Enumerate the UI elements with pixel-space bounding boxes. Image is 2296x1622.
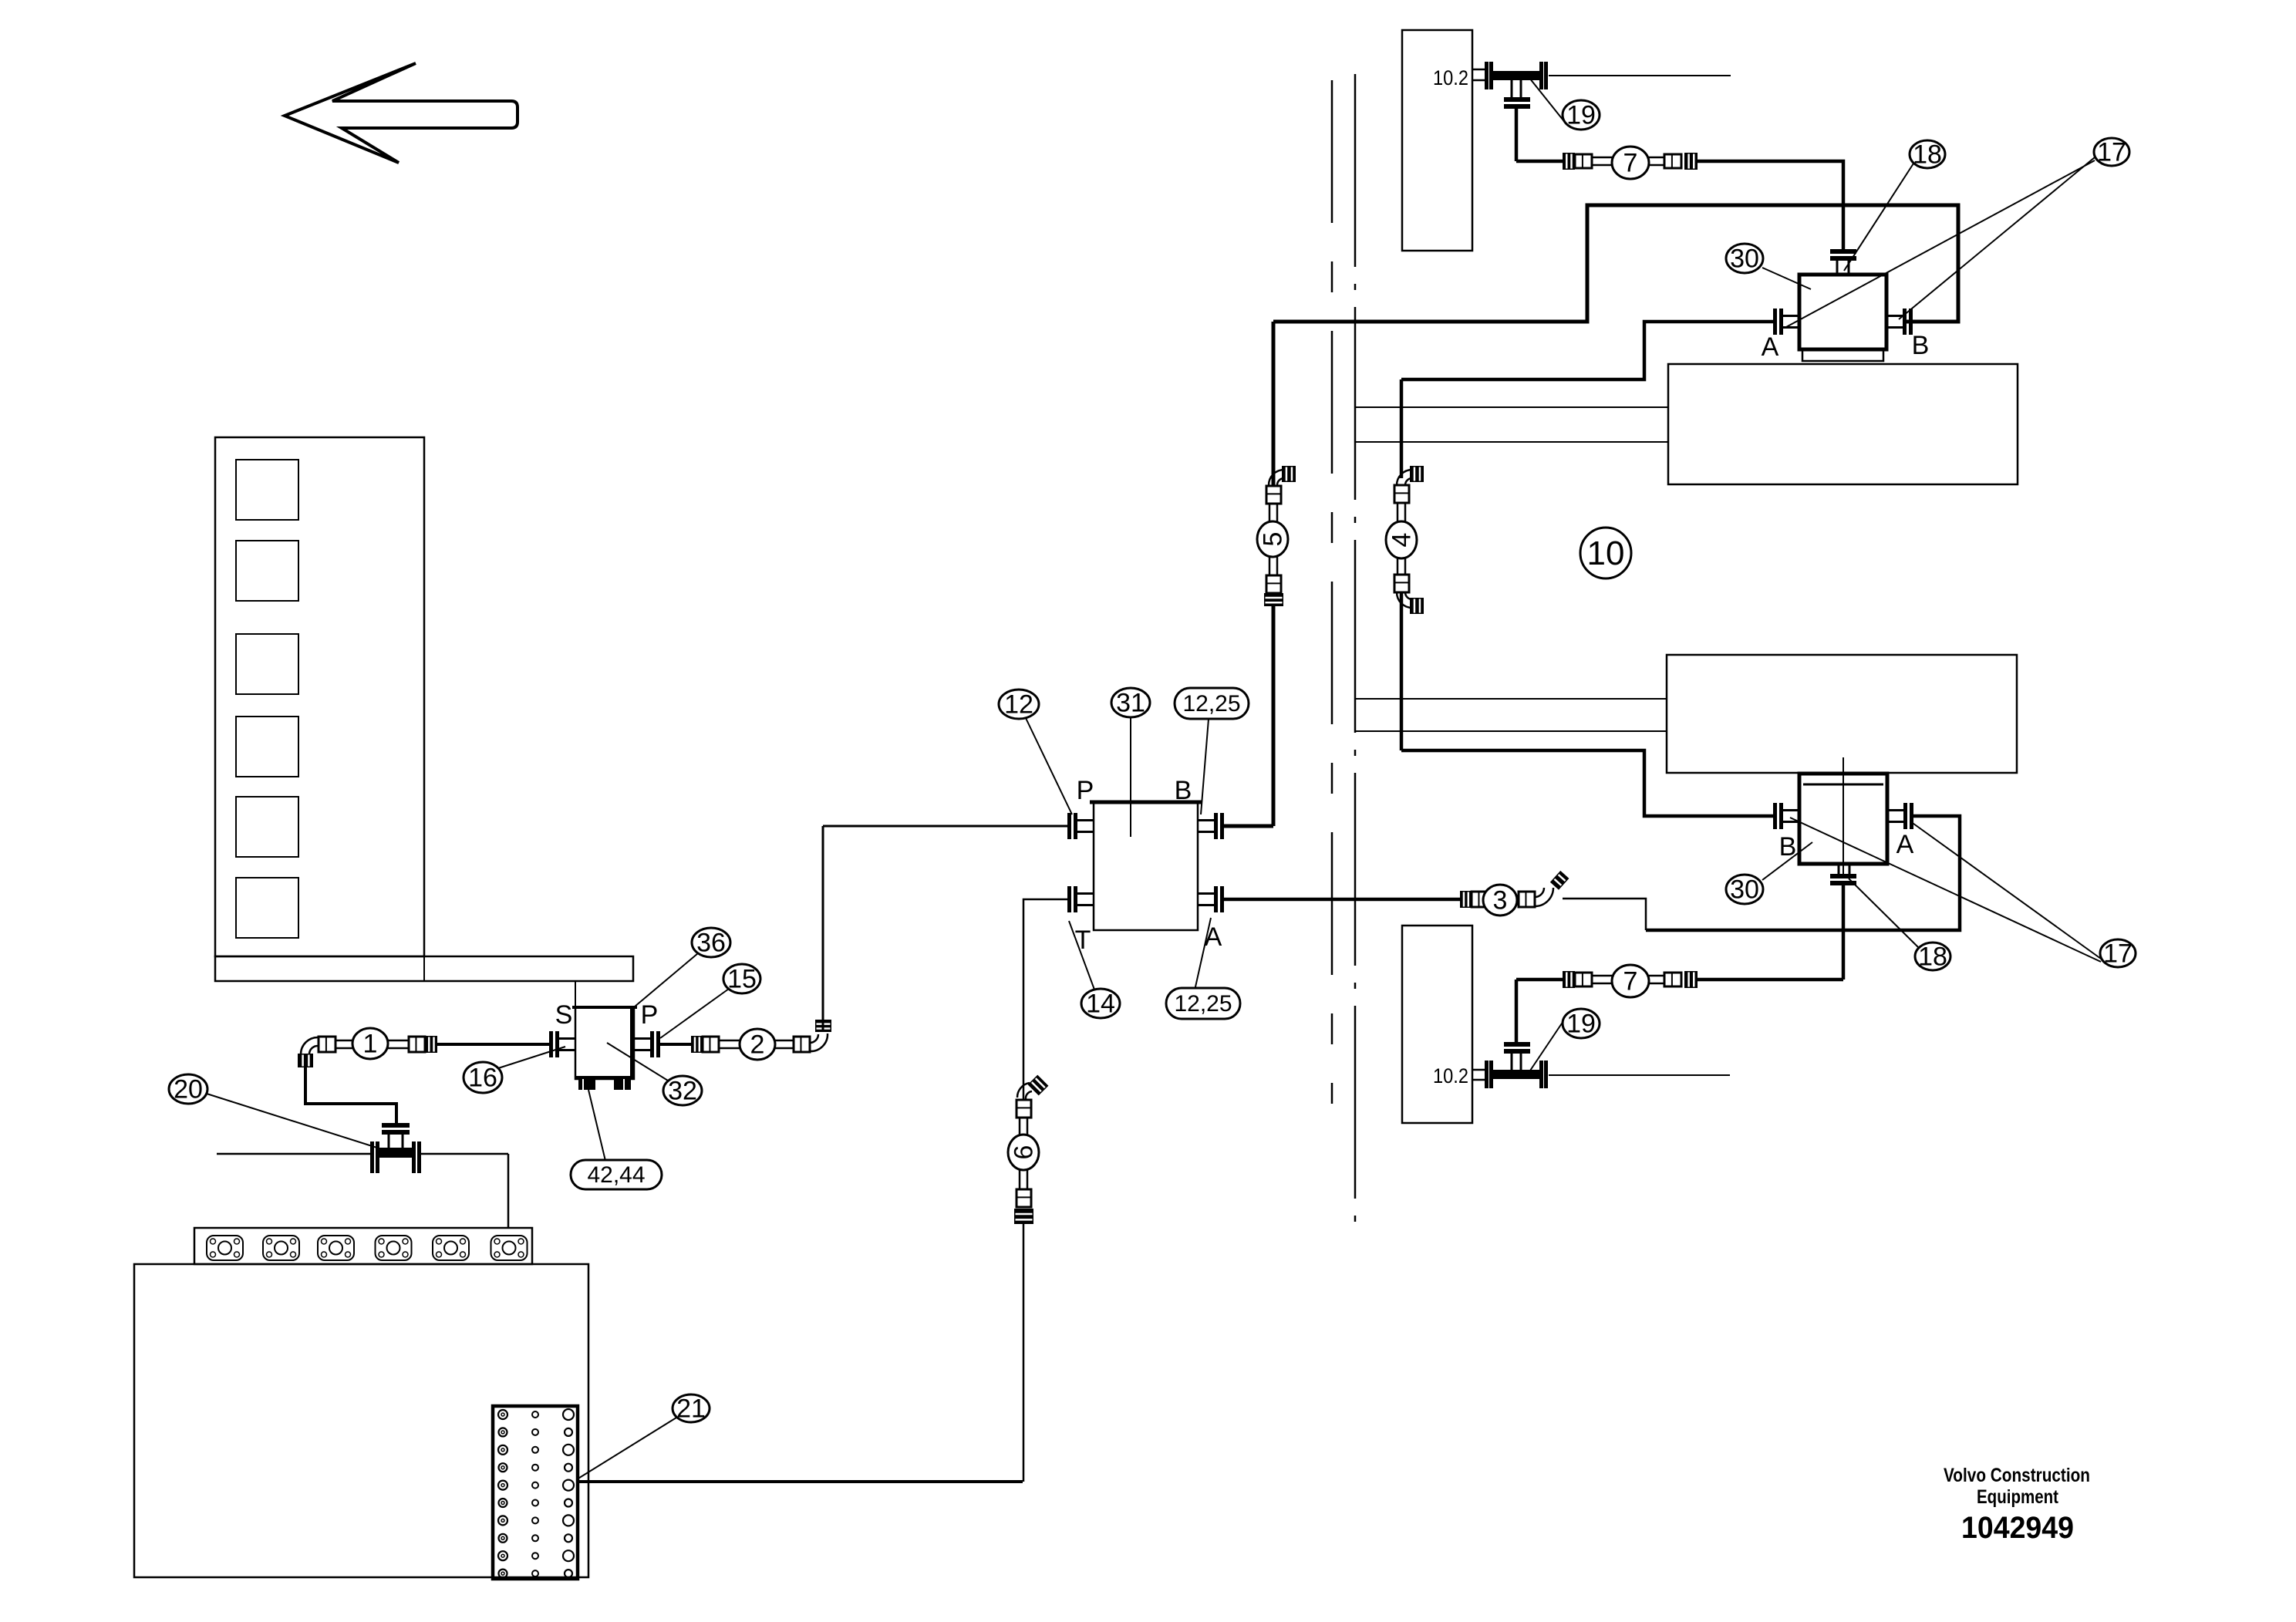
- hose H5 tube top: [1269, 504, 1277, 521]
- wire H3-to-loop: [1563, 899, 1646, 930]
- frame window 5: [236, 797, 298, 857]
- wire B-line: [1224, 824, 1273, 828]
- svg-text:21: 21: [676, 1394, 706, 1424]
- axle line top: [1549, 75, 1731, 76]
- svg-text:10.2: 10.2: [1433, 1064, 1468, 1088]
- tank flange plate 5: [433, 1236, 469, 1260]
- leader 21: [577, 1418, 676, 1479]
- callout 10: [1580, 528, 1631, 578]
- svg-text:5: 5: [1259, 532, 1288, 547]
- svg-text:18: 18: [1913, 140, 1942, 170]
- svg-text:12,25: 12,25: [1182, 691, 1240, 717]
- port label B top: [1912, 331, 1930, 360]
- svg-text:1042949: 1042949: [1961, 1511, 2074, 1545]
- port B fitting(30b): [1773, 803, 1799, 829]
- svg-text:16: 16: [468, 1064, 497, 1093]
- tee T20 neck: [389, 1135, 403, 1148]
- valve U30b flange stubs: [1839, 864, 1849, 874]
- callout 14: [1081, 989, 1120, 1019]
- svg-text:30: 30: [1730, 244, 1759, 274]
- wire block-to-H6: [578, 1480, 1023, 1483]
- valve U30t base plate: [1802, 349, 1883, 361]
- wire P36-to-H2: [659, 1043, 691, 1046]
- hose H1 ferrule left: [319, 1037, 335, 1052]
- leader 18 bottom: [1849, 878, 1918, 947]
- svg-text:B: B: [1912, 331, 1930, 360]
- valve U30b body: [1799, 774, 1887, 864]
- port A fitting(30t): [1773, 309, 1799, 335]
- port label S: [555, 1000, 573, 1030]
- hose H4 ferrule top: [1394, 485, 1409, 503]
- svg-text:10.2: 10.2: [1433, 66, 1468, 89]
- hose H7b tube left: [1592, 976, 1612, 983]
- port B fitting: [1198, 813, 1224, 839]
- svg-text:36: 36: [696, 929, 726, 958]
- port label P(valve36): [641, 1000, 659, 1030]
- port T fitting: [1067, 886, 1094, 912]
- svg-text:A: A: [1762, 332, 1779, 362]
- svg-text:P: P: [641, 1000, 659, 1030]
- wire T19t-riser: [1515, 109, 1519, 161]
- svg-text:2: 2: [750, 1030, 765, 1060]
- wire T19t-to-H7t: [1516, 160, 1563, 164]
- frame line bot-2: [1355, 730, 1667, 732]
- port label P: [1077, 776, 1094, 805]
- axle line bottom: [1549, 1074, 1730, 1076]
- svg-text:19: 19: [1566, 101, 1596, 130]
- wire H1-to-S: [437, 1043, 550, 1046]
- wire H2-up-to-P: [822, 826, 824, 1032]
- hose H3 elbow: [1535, 871, 1569, 906]
- frame window 3: [236, 634, 298, 694]
- hose H7b nut right: [1684, 971, 1698, 988]
- leader 12-25 top: [1201, 719, 1209, 814]
- tank manifold strip: [194, 1228, 532, 1264]
- callout 19 bottom: [1563, 1009, 1600, 1039]
- callout 12,25 top: [1175, 688, 1249, 719]
- svg-text:15: 15: [727, 965, 757, 994]
- hose H4 elbow top: [1397, 466, 1424, 485]
- hose H5 ferrule top: [1266, 486, 1281, 504]
- leader 36: [635, 953, 698, 1007]
- hose H7t ferrule right: [1664, 154, 1681, 168]
- svg-text:12: 12: [1004, 690, 1033, 720]
- hose H4 tube top: [1397, 503, 1405, 522]
- wire T-to-H6: [1023, 899, 1067, 1100]
- leader 30 top: [1762, 268, 1811, 289]
- svg-text:7: 7: [1623, 967, 1638, 996]
- svg-text:10: 10: [1587, 534, 1625, 572]
- wire A-line: [1224, 898, 1460, 902]
- frame edge through bar: [423, 956, 425, 981]
- callout 20: [169, 1074, 207, 1104]
- wire P-line: [823, 825, 1067, 828]
- port A fitting(30b): [1887, 803, 1913, 829]
- wire T20-right: [421, 1153, 508, 1155]
- leader 17 top-A: [1786, 160, 2095, 327]
- frame line bot-1: [1355, 698, 1667, 700]
- hose H7b ferrule right: [1664, 973, 1681, 986]
- wire A-crossover-lower: [1400, 592, 1404, 750]
- svg-text:32: 32: [668, 1077, 697, 1106]
- frame line top-2: [1355, 441, 1668, 443]
- hose H2 tube right: [775, 1040, 794, 1048]
- hose H7t nut right: [1684, 153, 1698, 170]
- frame window 6: [236, 878, 298, 938]
- leader 16: [498, 1047, 565, 1068]
- centerline right dash-dot: [1354, 74, 1357, 1226]
- centerline left: [1331, 80, 1333, 1104]
- svg-text:A: A: [1896, 830, 1914, 859]
- svg-text:17: 17: [2103, 939, 2132, 969]
- callout 30 bottom: [1726, 875, 1763, 905]
- leader 17 top-B: [1899, 157, 2095, 319]
- hose H6 nut bottom: [1014, 1209, 1033, 1224]
- port label T: [1075, 926, 1091, 955]
- hose H7t ferrule left: [1575, 154, 1592, 168]
- valve U30b centerline: [1843, 757, 1844, 874]
- hose H3 ferrule left: [1472, 892, 1488, 907]
- port label B: [1175, 776, 1192, 805]
- callout 42,44: [571, 1160, 662, 1189]
- wire left-to-T20: [217, 1153, 370, 1155]
- hose H6 ferrule top: [1017, 1100, 1031, 1118]
- hose H6 elbow: [1017, 1075, 1048, 1099]
- port B fitting(30t): [1886, 309, 1913, 335]
- svg-text:S: S: [555, 1000, 573, 1030]
- hose H7b ferrule left: [1575, 973, 1592, 986]
- leader 31: [1130, 717, 1131, 837]
- svg-text:4: 4: [1387, 533, 1417, 548]
- wire H7t-to-valve: [1698, 161, 1843, 250]
- tank flange plate 1: [207, 1236, 243, 1260]
- hose H2 tube left: [719, 1040, 740, 1048]
- wire B-riser-upper: [1272, 322, 1276, 485]
- tee T20 left flange: [370, 1141, 379, 1173]
- wire T20-down-to-tank: [507, 1154, 510, 1228]
- callout 36: [692, 928, 730, 958]
- hose H2 elbow: [810, 1020, 831, 1051]
- hose H4 elbow bottom: [1397, 592, 1424, 614]
- svg-text:Equipment: Equipment: [1977, 1486, 2059, 1508]
- tank flange plate 2: [263, 1236, 299, 1260]
- hose H5 ferrule bottom: [1266, 575, 1281, 593]
- pump connector block 21: [493, 1406, 578, 1579]
- hose H6 tube bottom: [1020, 1170, 1027, 1189]
- wire T19b-riser: [1515, 980, 1519, 1043]
- wire bar-to-valve36: [575, 981, 576, 1007]
- hose H1 tube left: [335, 1040, 354, 1048]
- hose H7t tube right: [1649, 157, 1664, 165]
- valve U36 body: [572, 1007, 637, 1079]
- tee T19t left flange: [1485, 62, 1493, 89]
- hose H2 ferrule left: [703, 1037, 719, 1052]
- port P fitting: [1067, 813, 1094, 839]
- tee T19t body: [1493, 71, 1539, 80]
- svg-text:7: 7: [1623, 149, 1638, 178]
- wire U30b-riser: [1842, 885, 1846, 980]
- port A fitting: [1198, 886, 1224, 912]
- hose H6 tube top: [1020, 1118, 1027, 1135]
- tee T19t stubs: [1472, 69, 1485, 80]
- leader 17 bottom-A: [1910, 821, 2101, 959]
- wire crossover-to-Bbot: [1401, 750, 1774, 816]
- callout 19 top: [1563, 100, 1600, 130]
- label 10.2 top: [1433, 66, 1468, 89]
- port P fitting(36): [634, 1031, 660, 1057]
- callout 17 bottom: [2100, 939, 2136, 969]
- leader 15: [660, 989, 729, 1038]
- valve U30t body: [1799, 275, 1886, 349]
- valve U30b top plate: [1803, 784, 1883, 786]
- callout 31: [1111, 688, 1150, 718]
- leader 14: [1069, 921, 1094, 990]
- leader 19 bottom: [1529, 1014, 1568, 1073]
- wire B-top-run: [1273, 205, 1958, 322]
- wire H6-down: [1023, 1224, 1025, 1482]
- cylinder 10 bottom: [1667, 655, 2017, 773]
- callout 32: [663, 1076, 702, 1106]
- tee T20 top flange: [382, 1123, 410, 1135]
- tee T19b cap flange: [1504, 1042, 1530, 1054]
- svg-text:1: 1: [363, 1030, 378, 1059]
- hose H3 tube left: [1488, 895, 1502, 903]
- leader 20: [207, 1094, 396, 1154]
- callout 6: [1008, 1135, 1039, 1170]
- tank flange plate 6: [491, 1236, 528, 1260]
- wire H1elbow-down-to-tee: [305, 1067, 396, 1123]
- svg-text:42,44: 42,44: [587, 1162, 645, 1188]
- svg-text:20: 20: [174, 1075, 203, 1104]
- port label A top: [1762, 332, 1779, 362]
- leader 19 top: [1529, 78, 1566, 124]
- hose H3 nut left: [1460, 891, 1472, 908]
- frame window 2: [236, 541, 298, 601]
- tee T20 body: [379, 1148, 412, 1158]
- label 10.2 bottom: [1433, 1064, 1468, 1088]
- valve U31 body: [1090, 802, 1202, 930]
- leader 42-44: [588, 1090, 605, 1161]
- tee T19b right flange: [1539, 1061, 1548, 1088]
- hose H3 ferrule right: [1519, 892, 1535, 907]
- cylinder 10 top: [1668, 364, 2018, 484]
- hose H1 nut right: [425, 1036, 437, 1053]
- svg-text:30: 30: [1730, 875, 1759, 905]
- direction arrow: [285, 63, 518, 163]
- callout 4: [1386, 521, 1417, 558]
- callout 3: [1483, 885, 1517, 916]
- svg-text:T: T: [1075, 926, 1091, 955]
- hose H7t tube left: [1592, 157, 1612, 165]
- callout 16: [464, 1062, 502, 1093]
- wire T19b-to-H7b: [1516, 978, 1563, 982]
- port S fitting: [549, 1031, 575, 1057]
- callout 18 bottom: [1915, 943, 1950, 972]
- hose H5 tube bottom: [1269, 557, 1277, 575]
- callout 2: [740, 1029, 775, 1060]
- callout 12,25 bottom: [1166, 988, 1240, 1019]
- tank flange plate 3: [318, 1236, 354, 1260]
- hose H7b tube right: [1649, 976, 1664, 983]
- callout 18 top: [1910, 140, 1945, 170]
- wire A-top-run: [1401, 322, 1773, 379]
- hose H1 ferrule right: [409, 1037, 425, 1052]
- hose H2 ferrule right: [794, 1037, 810, 1052]
- callout 12: [999, 690, 1039, 720]
- hose H4 tube bottom: [1397, 558, 1405, 575]
- callout 7 top: [1612, 147, 1649, 179]
- tee T19t right flange: [1539, 62, 1548, 89]
- callout 5: [1257, 521, 1288, 557]
- tee T19t neck: [1512, 80, 1521, 98]
- svg-text:6: 6: [1010, 1145, 1039, 1160]
- hydraulic block 10.2 bottom: [1402, 926, 1472, 1123]
- leader 12: [1026, 718, 1072, 814]
- hydraulic block 10.2 top: [1402, 30, 1472, 251]
- hose H1 elbow: [298, 1037, 319, 1067]
- tee T19b stubs: [1472, 1070, 1485, 1080]
- frame window 4: [236, 717, 298, 777]
- svg-text:12,25: 12,25: [1174, 991, 1232, 1017]
- wire B-riser-lower: [1272, 605, 1276, 826]
- tank body: [134, 1264, 588, 1577]
- tee T19b body: [1493, 1070, 1539, 1079]
- hose H7b nut left: [1563, 971, 1575, 988]
- svg-text:3: 3: [1493, 886, 1508, 916]
- tank flange plate 4: [376, 1236, 412, 1260]
- hose H7t nut left: [1563, 153, 1575, 170]
- hose H1 tube right: [388, 1040, 409, 1048]
- hose H4 ferrule bottom: [1394, 575, 1409, 592]
- frame line top-1: [1355, 406, 1668, 408]
- leader 17 bottom-B: [1790, 818, 2101, 962]
- svg-text:Volvo Construction: Volvo Construction: [1944, 1465, 2090, 1486]
- hose H5 elbow: [1269, 466, 1296, 485]
- svg-text:B: B: [1175, 776, 1192, 805]
- title text: [1944, 1465, 2090, 1545]
- svg-text:14: 14: [1086, 990, 1115, 1019]
- callout 30 top: [1726, 244, 1763, 274]
- port label A bottom: [1896, 830, 1914, 859]
- wire H7b-to-valve: [1698, 978, 1843, 982]
- callout 7 bottom: [1612, 965, 1649, 997]
- svg-text:17: 17: [2097, 138, 2126, 167]
- hose H2 nut left: [691, 1036, 703, 1053]
- valve U36 foot 44: [614, 1079, 631, 1090]
- tee T19b neck: [1512, 1054, 1521, 1071]
- wire A-loop-bottom: [1646, 816, 1960, 930]
- svg-text:18: 18: [1918, 943, 1947, 972]
- callout 17 top: [2094, 138, 2129, 167]
- wire A-crossover-upper: [1400, 379, 1404, 478]
- svg-text:19: 19: [1566, 1010, 1596, 1039]
- hose H6 ferrule bottom: [1017, 1189, 1031, 1207]
- leader 30 bottom: [1762, 842, 1812, 880]
- callout 21: [673, 1394, 710, 1424]
- svg-text:31: 31: [1116, 689, 1145, 718]
- frame tall rectangle: [215, 437, 424, 956]
- hose H5 nut bottom: [1264, 593, 1283, 606]
- valve U36 foot 42: [578, 1079, 595, 1090]
- frame bottom bar: [215, 956, 633, 981]
- callout 15: [723, 964, 760, 994]
- valve U30b bottom flange: [1830, 874, 1856, 885]
- valve U30t top flange: [1830, 249, 1856, 261]
- valve U30t flange stubs: [1837, 261, 1849, 275]
- svg-text:P: P: [1077, 776, 1094, 805]
- port label B bottom: [1779, 832, 1797, 862]
- leader 32: [607, 1043, 668, 1081]
- leader 12-25 bottom: [1195, 918, 1211, 990]
- frame window 1: [236, 460, 298, 520]
- leader 18 top: [1844, 164, 1913, 271]
- callout 1: [352, 1028, 388, 1059]
- tee T19b left flange: [1485, 1061, 1493, 1088]
- port label A: [1205, 922, 1222, 952]
- tee T19t cap flange: [1504, 97, 1530, 109]
- tee T20 right flange: [412, 1141, 421, 1173]
